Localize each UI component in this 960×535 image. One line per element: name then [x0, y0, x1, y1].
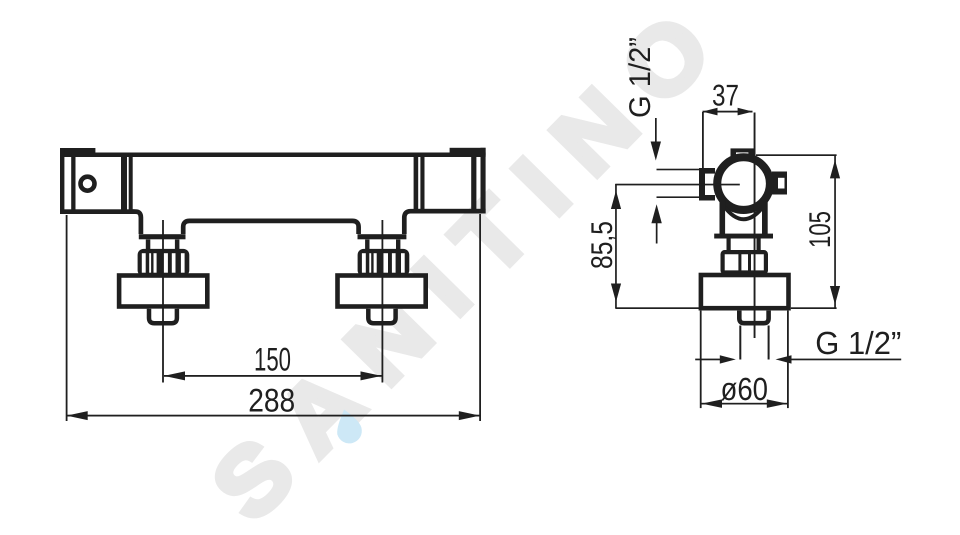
wall flange	[701, 275, 789, 308]
dimension 85.5 up arrow	[611, 191, 621, 210]
stem wall left	[727, 239, 731, 251]
body top line	[60, 153, 486, 158]
pipe top line	[657, 169, 700, 171]
left cap double line b	[129, 153, 133, 215]
vertical centerline	[754, 113, 756, 339]
watermark SANITINO	[192, 0, 749, 535]
left cap raised top bar	[60, 148, 95, 157]
body bottom outline right of right union	[404, 211, 415, 234]
dimension diameter 60 left arrow	[702, 399, 722, 408]
left union body	[119, 276, 207, 307]
pipe nipple	[699, 168, 715, 201]
dimension 85.5 line	[615, 184, 617, 308]
valve right tab	[772, 172, 787, 195]
dimension 37 line	[703, 111, 753, 113]
dimension G 1/2 left down arrow	[651, 142, 661, 161]
dimension G 1/2 bottom leader left segment	[695, 359, 721, 361]
left cap bottom	[60, 209, 135, 214]
dimension 105 line	[834, 155, 836, 308]
outlet stub	[739, 311, 768, 324]
right cap bottom	[414, 209, 486, 214]
dimension G 1/2 bottom left-pointing arrow	[776, 355, 792, 363]
dimension 105 bottom extension	[791, 307, 837, 309]
left union centerline	[162, 220, 164, 383]
neck wall left	[720, 200, 726, 234]
pipe bottom line	[657, 196, 700, 198]
right union stub	[368, 309, 395, 323]
neck disc	[714, 234, 773, 239]
dimension 288 left extension	[66, 215, 68, 421]
dimension 37 left extension	[702, 112, 704, 168]
right union flange bar	[358, 234, 407, 239]
valve body ring	[717, 157, 770, 210]
left union ribbed nut	[138, 249, 190, 276]
svg-text:G 1/2”: G 1/2”	[815, 325, 901, 361]
right cap raised top bar	[450, 148, 486, 156]
dimension 288 left arrow	[67, 411, 88, 420]
stem wall right	[757, 239, 761, 251]
dimension 150 right arrow	[361, 371, 382, 380]
svg-text:G 1/2”: G 1/2”	[624, 37, 657, 118]
dimension G 1/2 bottom right-pointing arrow	[720, 355, 736, 363]
valve top tab	[731, 148, 755, 158]
dimension 288 line	[67, 415, 481, 417]
dimension 150 left arrow	[164, 371, 185, 380]
left cap double line a	[121, 153, 127, 215]
dimension G 1/2 left line upper	[655, 118, 657, 143]
dimension 105 up arrow	[830, 160, 840, 179]
svg-text:105: 105	[804, 211, 837, 248]
dimension 85.5 bottom extension	[615, 307, 700, 309]
svg-text:37: 37	[712, 80, 739, 113]
dimension 37 left arrow	[702, 108, 717, 116]
left union neck left	[146, 240, 151, 251]
svg-text:ø60: ø60	[721, 371, 769, 407]
ribbed collar	[723, 250, 766, 275]
svg-text:SANITINO: SANITINO	[192, 0, 749, 535]
dimension diameter 60 left extension	[700, 311, 702, 409]
svg-text:150: 150	[254, 341, 291, 378]
body bottom outline left of left union	[131, 212, 141, 234]
left union neck right	[175, 240, 180, 251]
svg-text:288: 288	[248, 382, 295, 419]
dimension diameter 60 right arrow	[767, 399, 787, 408]
right cap double line b	[420, 153, 424, 214]
dimension diameter 60 line	[702, 403, 788, 405]
dimension G 1/2 left line lower	[656, 221, 658, 244]
left cap outer edge	[60, 148, 64, 214]
right cap outer edge	[481, 148, 486, 214]
right union neck left	[365, 240, 369, 251]
left union flange bar	[139, 234, 186, 239]
left cap screw hole	[81, 177, 95, 191]
dimension 37 right arrow	[738, 108, 753, 116]
dimension G 1/2 left up arrow	[651, 204, 661, 223]
dimension 105 down arrow	[830, 286, 840, 305]
left cap inner line	[71, 153, 75, 214]
body bottom outline between unions	[183, 221, 358, 234]
right union centerline	[382, 220, 384, 383]
right union ribbed nut	[358, 249, 410, 276]
dimension 288 right arrow	[459, 411, 480, 420]
watermark blue drop	[332, 406, 365, 446]
right union body	[338, 276, 426, 307]
dimension 85.5 top leader	[615, 184, 740, 186]
outlet pipe line left	[739, 326, 741, 360]
svg-text:85,5: 85,5	[586, 221, 619, 269]
dimension diameter 60 right extension	[787, 311, 789, 409]
dimension G 1/2 bottom leader right segment	[790, 359, 902, 361]
cartridge bottom arc	[724, 206, 765, 220]
dimension 85.5 down arrow	[611, 284, 621, 303]
right cap inner line	[471, 153, 476, 214]
dimension 105 top extension	[756, 154, 837, 156]
left union stub	[149, 309, 177, 323]
neck wall right	[762, 200, 768, 234]
dimension 150 line	[164, 375, 382, 377]
outlet pipe line right	[768, 326, 770, 360]
right union neck right	[396, 240, 400, 251]
right cap double line a	[414, 153, 419, 214]
dimension 288 right extension	[479, 214, 481, 421]
